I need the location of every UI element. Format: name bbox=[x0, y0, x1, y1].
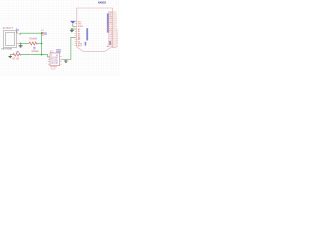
wire R2 to U2 bbox=[20, 55, 49, 57]
U2 right pins bbox=[60, 57, 62, 64]
junction dot mid node bbox=[41, 54, 43, 56]
battery plus sign bbox=[16, 31, 18, 33]
wire R1 to node bbox=[37, 43, 42, 45]
IC U1 body outline bbox=[77, 8, 113, 51]
svg-text:ATTINY: ATTINY bbox=[50, 66, 57, 69]
supply symbol VCC triangle bbox=[70, 21, 76, 24]
wire U2 to U1 bbox=[62, 37, 76, 59]
junction dot diode top bbox=[41, 32, 43, 34]
wire VCC vertical bbox=[41, 33, 43, 54]
wire gnd4 to pin bbox=[72, 28, 76, 30]
R1 value label below bbox=[33, 47, 35, 48]
IC U2 body bbox=[50, 53, 60, 66]
wire battery+ to node bbox=[19, 33, 41, 34]
U1 left pin ticks bbox=[75, 21, 77, 45]
ground 1 bbox=[20, 44, 22, 45]
svg-text:R2 1M: R2 1M bbox=[12, 58, 19, 60]
U1 left rotated label bbox=[86, 28, 88, 40]
junction dot gnd4 bbox=[71, 28, 73, 30]
resistor R1 bbox=[29, 42, 37, 45]
battery G1 inner body bbox=[6, 32, 15, 45]
diode D1 marks bbox=[41, 32, 44, 35]
U1 right rotated label bbox=[107, 13, 109, 32]
ground 2 bbox=[9, 55, 11, 56]
U1 right pin ticks bbox=[113, 12, 115, 46]
svg-text:3V BATT: 3V BATT bbox=[3, 26, 14, 30]
wire supply to pin bbox=[73, 24, 76, 26]
U2 value below bbox=[53, 56, 54, 64]
svg-text:VB: VB bbox=[16, 52, 20, 54]
resistor R2 bbox=[13, 53, 21, 56]
svg-text:NANO3: NANO3 bbox=[98, 2, 107, 5]
ground 4 bbox=[71, 28, 73, 31]
U2 left pins bbox=[48, 57, 50, 64]
battery pin + bbox=[17, 32, 20, 34]
wire gnd2 to R2 bbox=[10, 54, 13, 56]
battery G1 outer body bbox=[4, 31, 17, 48]
diode D1 value label bbox=[44, 32, 47, 35]
ground 3 bbox=[65, 59, 67, 62]
junction dot battery- bbox=[20, 43, 22, 45]
svg-text:AVCC: AVCC bbox=[107, 45, 113, 48]
svg-text:AREF: AREF bbox=[78, 25, 84, 28]
U1 bottom right pin tick bbox=[113, 47, 117, 49]
battery pin - bbox=[17, 43, 20, 45]
svg-text:KEYSTONE: KEYSTONE bbox=[2, 49, 13, 51]
wire battery- to R1 bbox=[19, 43, 29, 45]
junction dot R1 node bbox=[41, 43, 43, 45]
